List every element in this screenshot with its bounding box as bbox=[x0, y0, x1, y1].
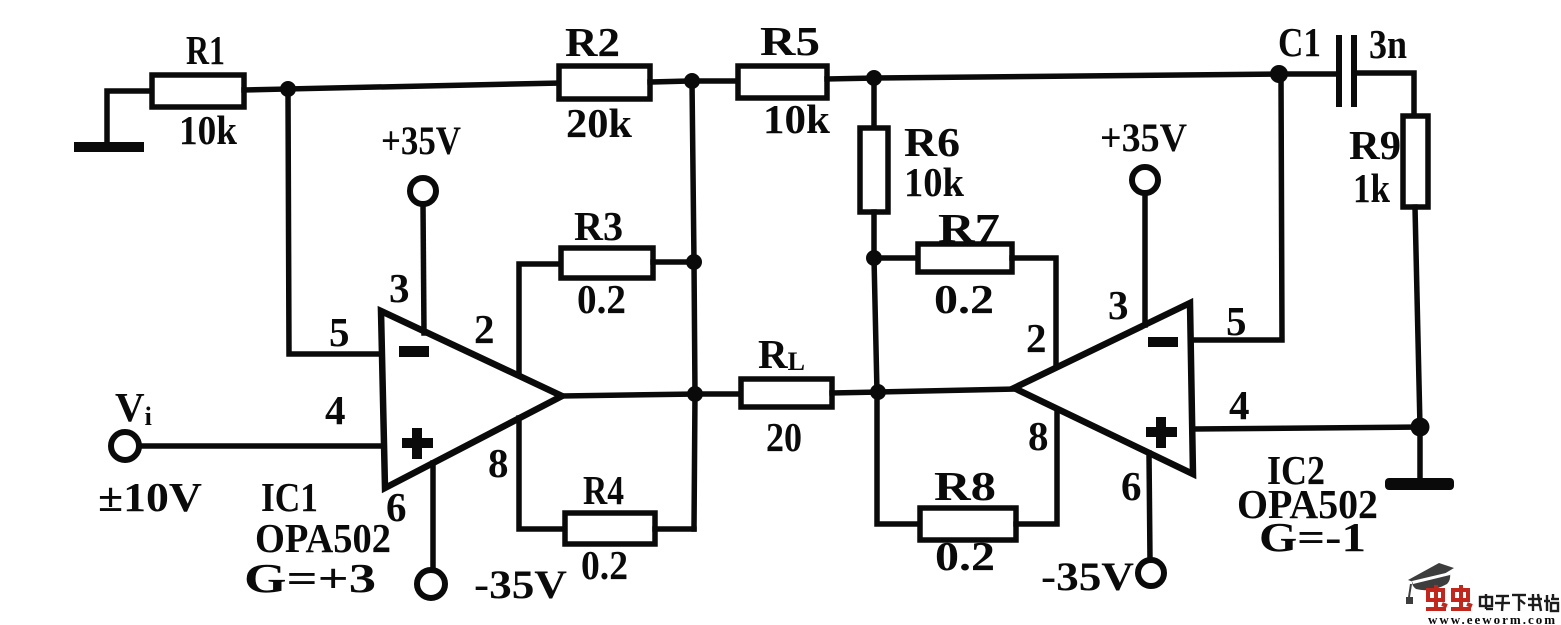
svg-text:0.2: 0.2 bbox=[577, 276, 626, 322]
svg-text:+35V: +35V bbox=[1100, 115, 1187, 160]
wire node A down to pin 5 of IC1 bbox=[288, 89, 384, 354]
wire IC1 pin 2 tap to R3 bbox=[519, 264, 561, 375]
resistor R5 bbox=[738, 66, 827, 98]
wire node E down to ground bbox=[1417, 427, 1423, 478]
+35V terminal (IC1) bbox=[410, 178, 436, 204]
svg-text:20k: 20k bbox=[566, 100, 632, 146]
wire node H to IC2 apex bbox=[878, 389, 1014, 392]
svg-text:+35V: +35V bbox=[381, 118, 461, 163]
svg-text:4: 4 bbox=[1229, 382, 1250, 428]
wire IC1 pin 6 to -35V bbox=[430, 463, 436, 571]
watermark site name 电子下载站 (drawn strokes) bbox=[1480, 594, 1559, 611]
wire C1 right plate to R9 top bbox=[1354, 73, 1414, 116]
ground (left, near R1) bbox=[74, 142, 144, 152]
wire IC1 output to node G bbox=[562, 394, 695, 396]
node F (R3/feedback junction) bbox=[686, 254, 702, 270]
svg-text:G=-1: G=-1 bbox=[1259, 514, 1366, 560]
op-amp IC2 bbox=[1014, 303, 1193, 474]
wire R5 right to node C bbox=[827, 78, 874, 79]
svg-text:10k: 10k bbox=[179, 107, 237, 153]
wire node I to R7 bbox=[874, 255, 918, 261]
wire node H down to R8 bbox=[877, 392, 920, 524]
node I (R6/R7 junction) bbox=[866, 250, 882, 266]
svg-text:5: 5 bbox=[329, 309, 350, 355]
node H (RL/IC2 input junction) bbox=[870, 384, 886, 400]
ground (right, near IC2) bbox=[1385, 478, 1454, 490]
svg-text:±10V: ±10V bbox=[98, 474, 202, 520]
IC2 plus input symbol bbox=[1146, 417, 1177, 448]
wire R3 right to node F bbox=[653, 259, 694, 265]
input terminal Vi bbox=[111, 432, 139, 460]
svg-text:10k: 10k bbox=[763, 96, 830, 142]
wire +35V to IC1 pin 3 bbox=[423, 204, 424, 333]
node B (R2/R5/feedback junction) bbox=[684, 73, 700, 89]
node E (pin4/R9/ground junction) bbox=[1411, 418, 1430, 437]
wire R8 right up to IC2 pin 8 tap bbox=[1016, 409, 1057, 524]
svg-text:R4: R4 bbox=[583, 467, 624, 513]
wire ground to R1 bbox=[107, 91, 152, 143]
svg-text:8: 8 bbox=[488, 440, 509, 486]
svg-text:5: 5 bbox=[1226, 298, 1247, 344]
svg-text:R2: R2 bbox=[565, 19, 620, 65]
svg-text:1k: 1k bbox=[1353, 165, 1390, 211]
wire IC2 pin 4 to node E bbox=[1194, 427, 1420, 429]
resistor R6 (vertical) bbox=[860, 128, 888, 212]
watermark 虫虫 characters bbox=[1426, 585, 1472, 609]
svg-text:C1: C1 bbox=[1278, 19, 1321, 65]
wire IC2 pin 6 to -35V bbox=[1149, 453, 1150, 560]
svg-text:8: 8 bbox=[1028, 413, 1049, 459]
svg-text:G=+3: G=+3 bbox=[244, 555, 376, 601]
wire IC1 pin 8 tap to R4 bbox=[519, 418, 565, 529]
wire +35V to IC2 pin 3 bbox=[1142, 193, 1148, 325]
capacitor C1 bbox=[1339, 38, 1354, 104]
IC1 plus input symbol bbox=[402, 428, 433, 459]
svg-text:R9: R9 bbox=[1349, 122, 1401, 168]
svg-text:3n: 3n bbox=[1369, 21, 1407, 67]
svg-text:6: 6 bbox=[1121, 463, 1142, 509]
svg-text:R1: R1 bbox=[186, 27, 225, 73]
svg-text:R7: R7 bbox=[938, 205, 1000, 251]
node C (R5/R6/top-rail junction) bbox=[866, 70, 882, 86]
resistor R8 bbox=[920, 508, 1016, 540]
-35V terminal (IC2) bbox=[1138, 560, 1164, 586]
svg-text:www.eeworm.com: www.eeworm.com bbox=[1428, 612, 1557, 625]
watermark logo graduation cap bbox=[1406, 563, 1454, 604]
wire R1 right to node A bbox=[244, 89, 288, 90]
wire top rail node C to node D bbox=[874, 74, 1279, 78]
wire R2 right to node B bbox=[650, 81, 692, 82]
wire feedback vertical node B down to R4 right bbox=[692, 81, 695, 529]
node G (IC1 output junction) bbox=[687, 386, 703, 402]
wire node C down to R6 bbox=[871, 78, 877, 128]
wire R9 bottom to node E bbox=[1415, 207, 1420, 427]
node D (C1/pin5 junction) bbox=[1270, 65, 1288, 83]
wire node D to C1 left plate bbox=[1279, 71, 1337, 77]
svg-text:2: 2 bbox=[474, 306, 495, 352]
svg-text:-35V: -35V bbox=[474, 562, 567, 607]
svg-text:3: 3 bbox=[389, 265, 410, 311]
svg-text:3: 3 bbox=[1108, 282, 1129, 328]
resistor R3 bbox=[561, 248, 653, 278]
-35V terminal (IC1) bbox=[417, 570, 445, 598]
svg-text:0.2: 0.2 bbox=[581, 542, 628, 588]
svg-text:4: 4 bbox=[325, 387, 346, 433]
svg-text:0.2: 0.2 bbox=[934, 276, 994, 322]
svg-text:-35V: -35V bbox=[1041, 554, 1134, 599]
wire Vi to IC1 pin 4 bbox=[139, 443, 384, 449]
svg-text:R8: R8 bbox=[934, 463, 996, 509]
wire node A to R2 bbox=[288, 83, 559, 89]
+35V terminal (IC2) bbox=[1132, 167, 1158, 193]
svg-text:IC1: IC1 bbox=[261, 474, 318, 520]
wire R6 bottom to node I bbox=[871, 212, 877, 258]
svg-text:0.2: 0.2 bbox=[935, 533, 995, 579]
resistor R9 (vertical) bbox=[1403, 116, 1428, 207]
resistor R7 bbox=[918, 244, 1012, 272]
resistor RL bbox=[741, 379, 832, 407]
wire node I down to node H bbox=[874, 258, 877, 392]
wire IC2 pin 5 to node D vertical bbox=[1192, 74, 1282, 340]
node A (junction after R1) bbox=[280, 81, 296, 97]
resistor R2 bbox=[559, 66, 650, 99]
svg-text:10k: 10k bbox=[904, 159, 964, 205]
resistor R1 bbox=[152, 75, 244, 107]
svg-text:R5: R5 bbox=[760, 18, 820, 64]
svg-text:R3: R3 bbox=[574, 203, 623, 249]
IC1 minus input symbol bbox=[399, 346, 429, 357]
wire R7 right down to IC2 pin 2 tap bbox=[1012, 258, 1056, 368]
IC2 minus input symbol bbox=[1148, 337, 1178, 347]
svg-text:2: 2 bbox=[1026, 315, 1047, 361]
wire RL right to node H bbox=[832, 392, 878, 393]
wire node G to RL bbox=[695, 391, 741, 397]
wire node B to R5 bbox=[692, 78, 738, 84]
op-amp IC1 bbox=[381, 311, 562, 488]
resistor R4 bbox=[565, 513, 655, 544]
wire R4 right up to feedback line bbox=[655, 526, 694, 532]
svg-text:20: 20 bbox=[766, 414, 802, 460]
